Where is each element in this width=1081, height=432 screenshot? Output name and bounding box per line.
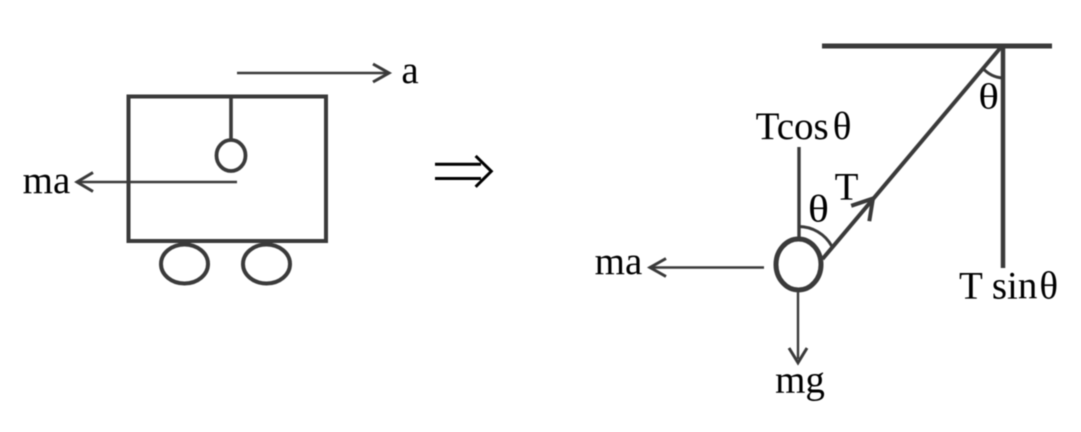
label a [401,49,418,92]
svg-text:mg: mg [775,359,825,402]
wheel left [161,245,208,284]
label theta at pivot [978,76,999,116]
svg-text:a: a [401,49,418,92]
ceiling [822,44,1052,49]
svg-text:T: T [835,166,859,209]
label mg [775,359,825,402]
pendulum string (cart) [229,97,233,141]
svg-text:θ: θ [978,76,999,116]
label ma (cart) [23,159,71,202]
svg-text:ma: ma [23,159,71,202]
svg-text:Tcosθ: Tcosθ [756,105,852,148]
weight arrow mg [789,292,807,362]
angle arc at bob [798,226,832,246]
Tcos theta component line [797,147,800,240]
cart body [129,97,327,242]
pendulum string T (slanted) [823,46,1003,259]
bob (free body) [776,239,821,290]
vertical reference line [1001,49,1006,269]
pendulum bob (cart) [217,140,246,171]
label theta at bob [808,187,829,230]
force arrow ma (free body) [650,259,764,277]
label T sin theta [959,265,1058,308]
pseudo-force arrow ma (cart) [77,173,237,192]
label ma (free body) [595,240,643,283]
tension arrowhead on string [851,199,873,222]
svg-text:T sinθ: T sinθ [959,265,1058,308]
wheel right [243,245,290,284]
implies arrow [435,156,491,187]
svg-text:θ: θ [808,187,829,230]
acceleration arrow a [237,64,389,82]
label Tcos theta [756,105,852,148]
angle arc at pivot [983,69,1003,79]
svg-text:ma: ma [595,240,643,283]
label T [835,166,859,209]
